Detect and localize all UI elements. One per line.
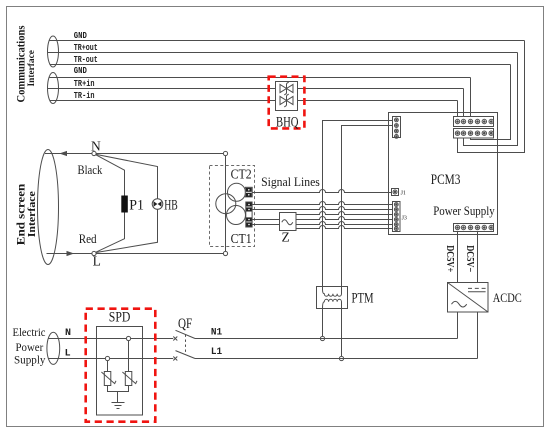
- wire PT primary N (to PTM): [323, 121, 393, 290]
- varistor RV2: [122, 372, 137, 386]
- svg-text:CT2: CT2: [231, 168, 252, 183]
- PTM primary winding: [323, 290, 342, 297]
- svg-text:L: L: [93, 254, 101, 269]
- svg-text:TR-in: TR-in: [74, 91, 95, 101]
- impedance Z box: [280, 213, 297, 231]
- svg-text:L: L: [65, 348, 71, 359]
- lamp HB: [152, 199, 163, 210]
- junction PTM-L1: [339, 356, 343, 360]
- wire PTM to L1: [341, 309, 343, 357]
- protector BHQ body: [276, 82, 298, 111]
- wire N to P1: [96, 155, 125, 196]
- svg-text:GND: GND: [74, 31, 88, 41]
- svg-text:CT1: CT1: [231, 232, 252, 247]
- wire TR-out: [50, 64, 511, 66]
- wire GND(tx) right drop to PCM3 pin: [458, 41, 525, 153]
- signal wire CT1b-J3: [252, 207, 392, 210]
- wire TR+in: [48, 88, 464, 90]
- terminal strip TB3 (power): [454, 224, 494, 232]
- signal wire Z-J3 (3): [296, 222, 393, 225]
- svg-text:Power Supply: Power Supply: [433, 204, 495, 218]
- svg-text:Electric: Electric: [13, 325, 46, 339]
- wire N (end screen): [45, 153, 92, 155]
- breaker QF link: [185, 335, 187, 355]
- TVS diode D1 (on TR+in): [280, 82, 293, 95]
- CT1 terminal block: [246, 202, 252, 227]
- svg-text:DC5V+: DC5V+: [444, 245, 456, 272]
- current transformer CT2: [228, 183, 246, 201]
- svg-text:ACDC: ACDC: [493, 290, 522, 305]
- svg-text:Communications: Communications: [14, 25, 28, 102]
- CT dashed outline: [210, 166, 255, 247]
- terminal strip TB1 (comm in): [454, 117, 494, 127]
- wire N (mains): [49, 338, 174, 340]
- terminal strip TB2 (comm out): [454, 129, 494, 139]
- svg-text:Z: Z: [282, 229, 290, 244]
- signal wire CT1d-Z: [252, 224, 279, 226]
- meter module PCM3 box: [389, 113, 498, 235]
- svg-text:J3: J3: [402, 216, 407, 222]
- svg-text:PCM3: PCM3: [431, 172, 461, 188]
- connector J5 (4-pin, PCM3 left top): [393, 117, 401, 139]
- wire GND (rx): [50, 77, 471, 79]
- wire N to HB: [96, 154, 157, 198]
- converter ACDC box: [448, 283, 489, 313]
- svg-text:DC5V−: DC5V−: [464, 245, 476, 272]
- transformer PTM box: [317, 287, 348, 309]
- arrow toward L: [67, 251, 75, 256]
- wire DC5V-: [477, 232, 479, 283]
- junction SPD-L: [105, 356, 109, 360]
- signal wire Z-J3 (2): [296, 217, 393, 220]
- wire L to varistor RV1: [107, 361, 109, 372]
- svg-text:TR-out: TR-out: [74, 55, 98, 65]
- wire varistors to ground: [108, 386, 129, 403]
- svg-text:SPD: SPD: [109, 310, 131, 326]
- breaker QF pole L blade: [176, 351, 196, 359]
- wire N to varistor RV2: [128, 341, 130, 372]
- svg-text:J1: J1: [401, 190, 406, 196]
- signal wire CT1c-Z: [252, 219, 279, 221]
- svg-text:TR+in: TR+in: [74, 79, 95, 89]
- ground: [112, 403, 125, 409]
- wire L1 bus: [195, 358, 478, 360]
- svg-text:QF: QF: [178, 316, 192, 332]
- wire P1 to L: [96, 213, 125, 253]
- wire PTM to N1: [322, 309, 324, 337]
- wire TR-in: [50, 100, 458, 102]
- svg-text:Black: Black: [78, 162, 103, 177]
- signal wire Z-J3 (1): [296, 212, 393, 215]
- connector CN2 cable shield ellipse (RX group): [48, 73, 59, 104]
- SPD body box: [97, 327, 143, 416]
- wire TR+out right drop to PCM3 pin: [464, 53, 518, 146]
- junction SPD-N: [126, 336, 130, 340]
- arrow into shield: [59, 151, 67, 156]
- protector BHQ red dashed outline: [269, 77, 305, 129]
- PTM secondary winding: [323, 299, 342, 308]
- breaker QF pole N contact x: [173, 337, 177, 341]
- CT2 terminal block: [245, 187, 252, 197]
- mains cable shield ellipse: [47, 332, 60, 364]
- svg-text:Interface: Interface: [26, 191, 38, 237]
- resistor P1: [121, 196, 128, 213]
- wire PT primary L (to PTM): [342, 126, 393, 290]
- svg-text:Signal Lines: Signal Lines: [261, 175, 320, 189]
- breaker QF pole L contact x: [173, 357, 177, 361]
- wire TR-out right drop to PCM3 pin: [471, 65, 511, 140]
- PTM winding stubs: [323, 287, 342, 290]
- wire L (mains): [49, 358, 174, 360]
- svg-text:TR+out: TR+out: [74, 43, 98, 53]
- TVS diode D2 (on TR-in): [280, 94, 293, 107]
- connector CN1 cable shield ellipse (TX group): [48, 36, 59, 67]
- wire CT primary: [225, 156, 227, 252]
- svg-text:Red: Red: [79, 231, 97, 246]
- wire TR+out: [48, 52, 518, 54]
- breaker QF pole N blade: [176, 330, 196, 338]
- wire GND(rx) drop to PCM3 pin: [470, 78, 472, 117]
- svg-text:GND: GND: [74, 66, 88, 76]
- connector J1 (PCM3 left): [392, 189, 399, 196]
- signal wire Z-J3 (4): [296, 226, 393, 229]
- wire L to bus node: [96, 253, 223, 255]
- wire GND (tx): [50, 40, 525, 42]
- junction PTM-N1: [320, 336, 324, 340]
- svg-text:P1: P1: [129, 198, 144, 214]
- label End screen Interface: [13, 183, 38, 245]
- svg-text:N1: N1: [211, 328, 222, 339]
- wire ACDC to L1: [477, 312, 479, 359]
- svg-text:HB: HB: [164, 198, 178, 214]
- svg-text:Interface: Interface: [27, 50, 37, 86]
- wire L (end screen): [47, 253, 92, 255]
- wire TR+in drop to PCM3 pin: [463, 89, 465, 117]
- svg-text:N: N: [91, 138, 101, 153]
- wire HB to L: [96, 209, 157, 252]
- svg-text:PTM: PTM: [352, 291, 374, 307]
- arrester SPD red dashed outline: [86, 309, 156, 422]
- label Electric Power Supply: [13, 325, 46, 367]
- svg-text:N: N: [65, 328, 71, 339]
- wire ACDC to N1: [457, 312, 459, 339]
- node N: [92, 151, 96, 155]
- signal wire CT1a-J3: [252, 202, 392, 205]
- wire N to bus node: [96, 153, 223, 155]
- varistor RV1: [101, 372, 116, 386]
- label Communications Interface: [14, 25, 38, 102]
- node L: [92, 251, 96, 255]
- svg-text:L1: L1: [211, 347, 222, 358]
- wire N1 bus: [195, 338, 458, 340]
- svg-text:Supply: Supply: [14, 353, 46, 367]
- end screen cable shield ellipse: [38, 150, 59, 265]
- svg-text:BHQ: BHQ: [276, 115, 299, 131]
- node primary bottom: [223, 251, 227, 255]
- connector J3 (PCM3 left): [393, 202, 401, 232]
- node primary top: [223, 151, 227, 155]
- wire DC5V+: [457, 232, 459, 283]
- signal wire CT2-J1: [252, 190, 391, 193]
- wire TR-in drop to PCM3 pin: [457, 101, 459, 117]
- CT coupling circle: [216, 194, 236, 214]
- current transformer CT1: [227, 206, 246, 225]
